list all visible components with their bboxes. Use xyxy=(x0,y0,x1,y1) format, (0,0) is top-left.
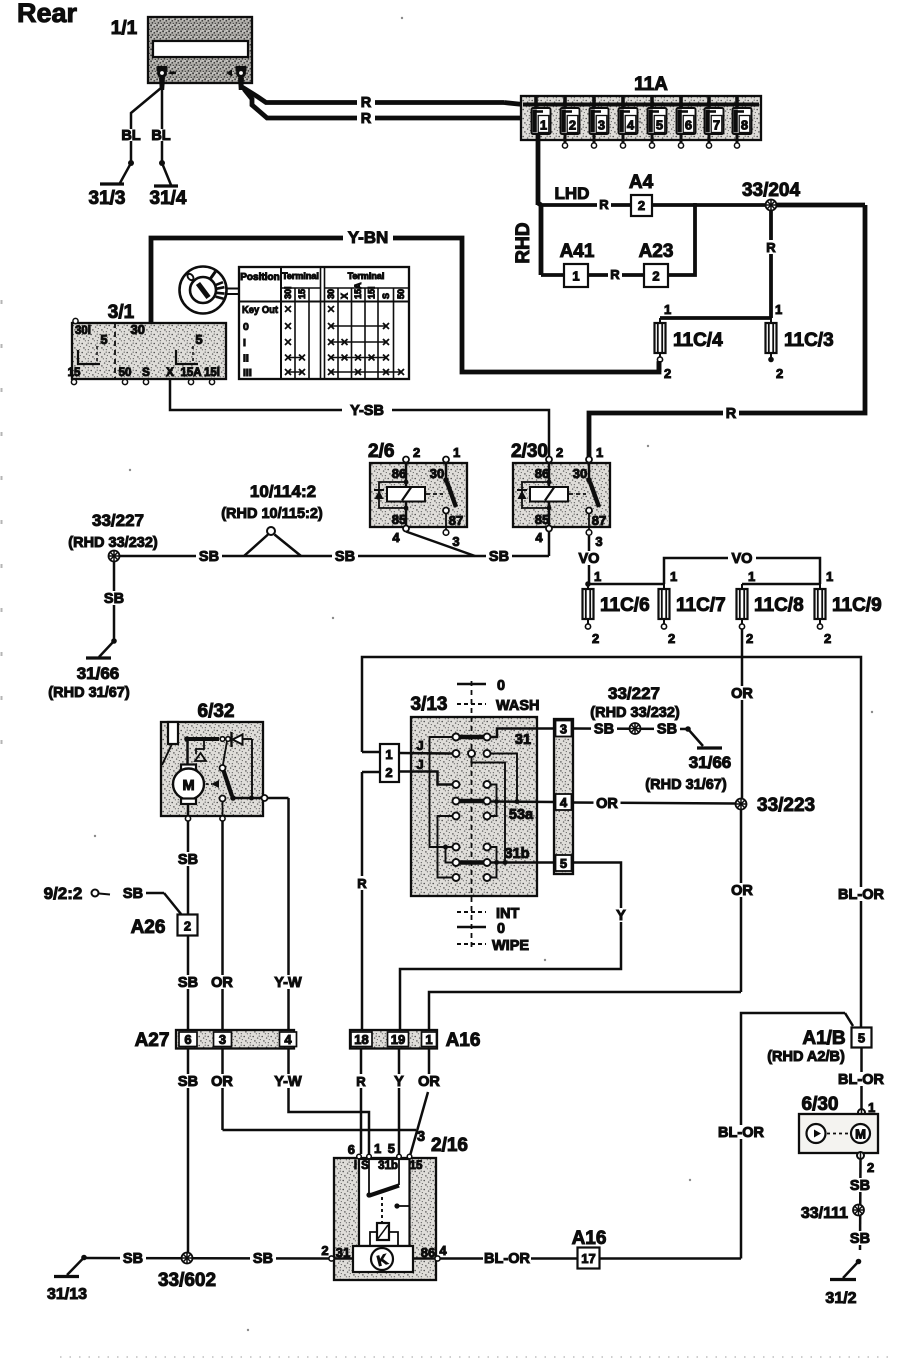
svg-text:(RHD 31/67): (RHD 31/67) xyxy=(48,685,130,701)
svg-text:SB: SB xyxy=(123,886,143,902)
svg-text:SB: SB xyxy=(850,1231,870,1247)
svg-text:l: l xyxy=(354,1160,357,1172)
svg-text:2: 2 xyxy=(867,1160,874,1175)
svg-text:31/3: 31/3 xyxy=(89,188,126,209)
svg-text:11C/4: 11C/4 xyxy=(673,330,723,351)
svg-text:VO: VO xyxy=(579,551,600,567)
svg-text:BL-OR: BL-OR xyxy=(718,1125,764,1141)
svg-text:R: R xyxy=(610,267,620,282)
svg-text:INT: INT xyxy=(496,906,520,922)
svg-text:J: J xyxy=(416,757,423,772)
svg-text:A27: A27 xyxy=(135,1030,170,1051)
svg-text:5: 5 xyxy=(388,1141,395,1156)
svg-text:2: 2 xyxy=(592,631,599,646)
svg-text:S: S xyxy=(142,367,150,379)
svg-text:OR: OR xyxy=(211,1074,233,1090)
svg-text:Terminal: Terminal xyxy=(282,271,319,281)
svg-text:1: 1 xyxy=(572,269,579,284)
svg-text:Y-SB: Y-SB xyxy=(350,403,384,419)
svg-text:1: 1 xyxy=(670,569,677,584)
svg-text:0: 0 xyxy=(497,921,505,937)
svg-text:87: 87 xyxy=(449,513,463,528)
svg-text:85: 85 xyxy=(392,512,406,527)
svg-text:1: 1 xyxy=(664,302,671,317)
svg-text:Terminal: Terminal xyxy=(348,271,385,281)
svg-text:30: 30 xyxy=(326,289,336,299)
svg-text:WASH: WASH xyxy=(496,698,540,714)
svg-text:5: 5 xyxy=(195,332,202,347)
svg-text:(RHD 31/67): (RHD 31/67) xyxy=(645,777,727,793)
svg-text:Y: Y xyxy=(616,908,626,924)
svg-text:2: 2 xyxy=(385,765,392,780)
svg-text:I: I xyxy=(243,337,246,349)
svg-text:1: 1 xyxy=(594,569,601,584)
svg-text:19: 19 xyxy=(391,1032,405,1047)
svg-text:31/13: 31/13 xyxy=(47,1286,87,1303)
svg-text:15: 15 xyxy=(410,1160,423,1172)
svg-text:3: 3 xyxy=(560,722,567,737)
svg-text:BL: BL xyxy=(121,128,140,144)
svg-text:8: 8 xyxy=(741,118,748,133)
svg-text:1: 1 xyxy=(385,747,392,762)
svg-text:SB: SB xyxy=(850,1178,870,1194)
svg-text:2: 2 xyxy=(652,269,659,284)
svg-text:3: 3 xyxy=(595,534,602,549)
svg-text:11C/3: 11C/3 xyxy=(784,330,834,351)
svg-text:A26: A26 xyxy=(131,917,166,938)
svg-text:SB: SB xyxy=(199,549,219,565)
svg-text:33/111: 33/111 xyxy=(801,1205,848,1222)
svg-text:9/2:2: 9/2:2 xyxy=(44,884,83,903)
svg-text:4: 4 xyxy=(284,1032,292,1047)
svg-text:5: 5 xyxy=(656,118,663,133)
svg-text:1/1: 1/1 xyxy=(111,18,138,39)
svg-text:2: 2 xyxy=(413,445,420,460)
svg-text:(RHD 33/232): (RHD 33/232) xyxy=(590,705,680,721)
svg-text:SB: SB xyxy=(123,1251,143,1267)
svg-text:BL: BL xyxy=(151,128,170,144)
svg-text:11C/9: 11C/9 xyxy=(832,595,882,616)
svg-text:SB: SB xyxy=(178,975,198,991)
svg-text:Rear: Rear xyxy=(17,0,78,28)
svg-text:30: 30 xyxy=(430,466,444,481)
svg-text:15A: 15A xyxy=(353,282,363,299)
svg-text:85: 85 xyxy=(535,512,549,527)
svg-text:30: 30 xyxy=(131,322,145,337)
svg-text:15l: 15l xyxy=(367,286,377,299)
svg-text:11C/8: 11C/8 xyxy=(754,595,804,616)
svg-text:A16: A16 xyxy=(572,1228,607,1249)
svg-text:87: 87 xyxy=(592,513,606,528)
svg-text:SB: SB xyxy=(489,549,509,565)
svg-text:A1/B: A1/B xyxy=(802,1028,845,1049)
svg-text:R: R xyxy=(599,197,609,212)
svg-text:6/32: 6/32 xyxy=(198,701,235,722)
svg-text:15: 15 xyxy=(68,367,81,379)
svg-text:Y: Y xyxy=(394,1074,404,1090)
svg-text:Key Out: Key Out xyxy=(242,304,278,316)
svg-text:1: 1 xyxy=(596,445,603,460)
svg-text:10/114:2: 10/114:2 xyxy=(250,482,316,501)
svg-text:VO: VO xyxy=(732,551,753,567)
svg-text:3: 3 xyxy=(417,1129,425,1145)
svg-text:SB: SB xyxy=(178,1074,198,1090)
svg-text:LHD: LHD xyxy=(555,184,590,203)
svg-text:1: 1 xyxy=(748,569,755,584)
svg-text:1: 1 xyxy=(425,1032,432,1047)
svg-text:2: 2 xyxy=(776,366,783,381)
svg-text:31: 31 xyxy=(515,732,531,748)
svg-text:50: 50 xyxy=(396,289,406,299)
svg-text:11C/6: 11C/6 xyxy=(600,595,650,616)
svg-text:31/66: 31/66 xyxy=(689,753,732,772)
svg-text:SB: SB xyxy=(594,722,614,738)
svg-text:0: 0 xyxy=(497,678,505,694)
svg-text:J: J xyxy=(416,738,423,753)
svg-text:II: II xyxy=(243,353,249,365)
svg-text:X: X xyxy=(340,293,350,299)
svg-text:2: 2 xyxy=(569,118,576,133)
svg-text:11C/7: 11C/7 xyxy=(676,595,726,616)
svg-text:R: R xyxy=(357,876,367,891)
svg-text:Y-W: Y-W xyxy=(274,1074,302,1090)
svg-text:1: 1 xyxy=(374,1141,381,1156)
svg-text:OR: OR xyxy=(211,975,233,991)
svg-text:BL-OR: BL-OR xyxy=(838,1072,884,1088)
svg-text:33/227: 33/227 xyxy=(92,511,144,530)
svg-text:30l: 30l xyxy=(283,286,293,299)
svg-text:6: 6 xyxy=(348,1142,355,1157)
svg-text:SB: SB xyxy=(178,852,198,868)
svg-text:5: 5 xyxy=(560,856,567,871)
svg-text:5: 5 xyxy=(100,332,107,347)
svg-text:III: III xyxy=(243,367,252,379)
svg-text:SB: SB xyxy=(335,549,355,565)
svg-text:Y-BN: Y-BN xyxy=(348,228,389,247)
svg-text:4: 4 xyxy=(392,530,400,545)
svg-text:0: 0 xyxy=(243,321,249,333)
svg-text:A41: A41 xyxy=(560,241,595,262)
svg-text:53a: 53a xyxy=(509,807,534,823)
svg-text:33/204: 33/204 xyxy=(742,180,801,201)
svg-text:6: 6 xyxy=(685,118,692,133)
svg-text:OR: OR xyxy=(418,1074,440,1090)
svg-text:OR: OR xyxy=(731,883,753,899)
svg-text:6: 6 xyxy=(184,1032,191,1047)
svg-text:86: 86 xyxy=(421,1245,435,1260)
svg-text:M: M xyxy=(855,1127,866,1142)
svg-text:A4: A4 xyxy=(629,172,654,193)
svg-text:4: 4 xyxy=(627,118,635,133)
svg-text:31b: 31b xyxy=(505,846,530,862)
svg-text:11A: 11A xyxy=(634,74,668,95)
svg-text:3: 3 xyxy=(219,1032,226,1047)
svg-text:2/6: 2/6 xyxy=(368,441,394,462)
svg-text:31: 31 xyxy=(336,1245,350,1260)
svg-text:(RHD A2/B): (RHD A2/B) xyxy=(767,1049,845,1065)
svg-text:2: 2 xyxy=(664,366,671,381)
svg-text:Position: Position xyxy=(240,272,279,283)
svg-text:S: S xyxy=(381,293,391,299)
svg-text:BL-OR: BL-OR xyxy=(484,1251,530,1267)
svg-text:SB: SB xyxy=(253,1251,273,1267)
svg-text:33/227: 33/227 xyxy=(608,684,660,703)
svg-text:30: 30 xyxy=(573,466,587,481)
svg-text:86: 86 xyxy=(392,466,406,481)
svg-text:2: 2 xyxy=(746,631,753,646)
svg-text:6/30: 6/30 xyxy=(802,1094,839,1115)
svg-text:15: 15 xyxy=(297,289,307,299)
svg-text:2: 2 xyxy=(824,631,831,646)
svg-text:Y-W: Y-W xyxy=(274,975,302,991)
svg-text:17: 17 xyxy=(581,1251,595,1266)
svg-text:31/4: 31/4 xyxy=(150,188,187,209)
svg-text:31b: 31b xyxy=(378,1160,398,1172)
svg-text:M: M xyxy=(182,778,194,794)
svg-text:A16: A16 xyxy=(446,1030,481,1051)
svg-text:R: R xyxy=(766,240,776,255)
svg-text:R: R xyxy=(356,1074,366,1089)
svg-text:15A: 15A xyxy=(180,367,201,379)
svg-text:2: 2 xyxy=(668,631,675,646)
svg-text:2/30: 2/30 xyxy=(511,441,548,462)
svg-text:1: 1 xyxy=(826,569,833,584)
svg-text:2: 2 xyxy=(556,445,563,460)
svg-text:SB: SB xyxy=(657,722,677,738)
svg-text:3: 3 xyxy=(452,534,459,549)
svg-text:R: R xyxy=(361,111,372,127)
svg-text:SB: SB xyxy=(104,591,124,607)
svg-text:3/13: 3/13 xyxy=(411,694,448,715)
svg-text:4: 4 xyxy=(560,795,568,810)
svg-text:4: 4 xyxy=(535,530,543,545)
svg-text:1: 1 xyxy=(540,118,547,133)
svg-text:(RHD 33/232): (RHD 33/232) xyxy=(68,535,158,551)
svg-text:S: S xyxy=(361,1160,369,1172)
svg-text:OR: OR xyxy=(731,686,753,702)
svg-text:R: R xyxy=(361,95,372,111)
svg-text:2: 2 xyxy=(638,198,645,213)
svg-text:4: 4 xyxy=(439,1243,447,1258)
svg-text:3/1: 3/1 xyxy=(108,302,135,323)
svg-text:2: 2 xyxy=(184,919,191,934)
svg-text:2/16: 2/16 xyxy=(431,1135,468,1156)
svg-text:R: R xyxy=(726,406,737,422)
svg-text:OR: OR xyxy=(596,796,618,812)
svg-text:30l: 30l xyxy=(75,325,91,337)
svg-text:15l: 15l xyxy=(204,367,220,379)
svg-text:RHD: RHD xyxy=(513,222,534,263)
svg-text:BL-OR: BL-OR xyxy=(838,887,884,903)
svg-text:7: 7 xyxy=(713,118,720,133)
svg-text:(RHD 10/115:2): (RHD 10/115:2) xyxy=(221,506,323,522)
svg-text:33/602: 33/602 xyxy=(158,1270,216,1291)
svg-text:1: 1 xyxy=(775,302,782,317)
svg-text:86: 86 xyxy=(535,466,549,481)
svg-text:1: 1 xyxy=(868,1100,875,1115)
svg-text:5: 5 xyxy=(858,1031,865,1046)
svg-text:WIPE: WIPE xyxy=(492,938,529,954)
svg-text:33/223: 33/223 xyxy=(757,795,815,816)
svg-text:1: 1 xyxy=(453,445,460,460)
svg-text:31/66: 31/66 xyxy=(77,664,120,683)
svg-text:2: 2 xyxy=(321,1243,328,1258)
svg-text:18: 18 xyxy=(354,1032,368,1047)
svg-text:A23: A23 xyxy=(639,241,674,262)
svg-text:X: X xyxy=(166,367,174,379)
svg-text:31/2: 31/2 xyxy=(825,1290,856,1307)
svg-text:50: 50 xyxy=(119,367,132,379)
svg-text:3: 3 xyxy=(598,118,605,133)
